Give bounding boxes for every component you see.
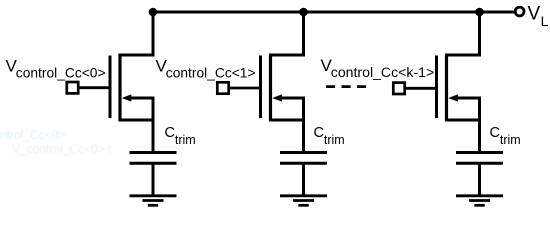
wire top rail VL net — [152, 11, 515, 14]
transistor M3 drain wire — [445, 12, 480, 55]
transistor M3 gate bar — [435, 56, 438, 119]
transistor M2 body arrow — [272, 94, 282, 101]
svg-text:V_control_Cc<0> t: V_control_Cc<0> t — [12, 142, 112, 156]
transistor M1 drain wire — [119, 12, 154, 55]
svg-text:ntrol_Cc<0>: ntrol_Cc<0> — [0, 128, 65, 142]
wire gate of M3 — [404, 87, 438, 90]
wire M3 source lead — [445, 119, 480, 122]
svg-text:control_Cc<k-1>: control_Cc<k-1> — [331, 64, 434, 80]
ground 1 — [130, 196, 177, 206]
wire M1 source lead — [119, 119, 154, 122]
capacitor C2 bottom plate — [280, 162, 327, 165]
svg-text:V: V — [528, 4, 541, 25]
wire C2 to ground — [302, 163, 305, 196]
node junction dot 2 — [299, 8, 308, 17]
node junction dot 3 — [475, 8, 484, 17]
capacitor C3 bottom plate — [456, 162, 503, 165]
capacitor C1 top plate — [130, 151, 177, 154]
wire C3 to ground — [478, 163, 481, 196]
svg-text:trim: trim — [324, 133, 345, 147]
transistor M2 channel bar — [269, 54, 272, 122]
wire M1 body lead — [130, 98, 153, 153]
wire dashed continuation — [326, 85, 366, 88]
terminal VL open circle — [515, 7, 524, 16]
svg-text:C: C — [490, 125, 500, 141]
transistor M3 channel bar — [445, 54, 448, 122]
transistor M1 channel bar — [118, 54, 121, 122]
svg-text:trim: trim — [175, 133, 196, 147]
svg-text:C: C — [165, 125, 175, 141]
transistor M1 gate bar — [109, 56, 112, 119]
wire gate of M2 — [228, 87, 262, 90]
capacitor C3 top plate — [456, 151, 503, 154]
svg-text:control_Cc<0>: control_Cc<0> — [16, 66, 106, 81]
terminal square input 2 — [217, 82, 228, 93]
capacitor C1 bottom plate — [130, 162, 177, 165]
node junction dot 1 — [149, 8, 158, 17]
svg-text:trim: trim — [500, 133, 521, 147]
wire M2 source lead — [269, 119, 304, 122]
svg-text:control_Cc<1>: control_Cc<1> — [166, 66, 256, 81]
wire M3 body lead — [457, 98, 480, 153]
wire gate of M1 — [77, 86, 111, 89]
transistor M3 body arrow — [448, 94, 458, 101]
transistor M2 drain wire — [269, 12, 304, 55]
terminal square input 1 — [67, 82, 78, 93]
wire M2 body lead — [281, 98, 304, 153]
svg-text:L: L — [541, 13, 549, 29]
capacitor C2 top plate — [280, 151, 327, 154]
ground 3 — [456, 196, 503, 206]
svg-text:C: C — [314, 125, 324, 141]
wire C1 to ground — [152, 163, 155, 196]
ground 2 — [280, 196, 327, 206]
transistor M2 gate bar — [259, 56, 262, 119]
terminal square input 3 — [393, 83, 404, 94]
transistor M1 body arrow — [122, 94, 132, 101]
